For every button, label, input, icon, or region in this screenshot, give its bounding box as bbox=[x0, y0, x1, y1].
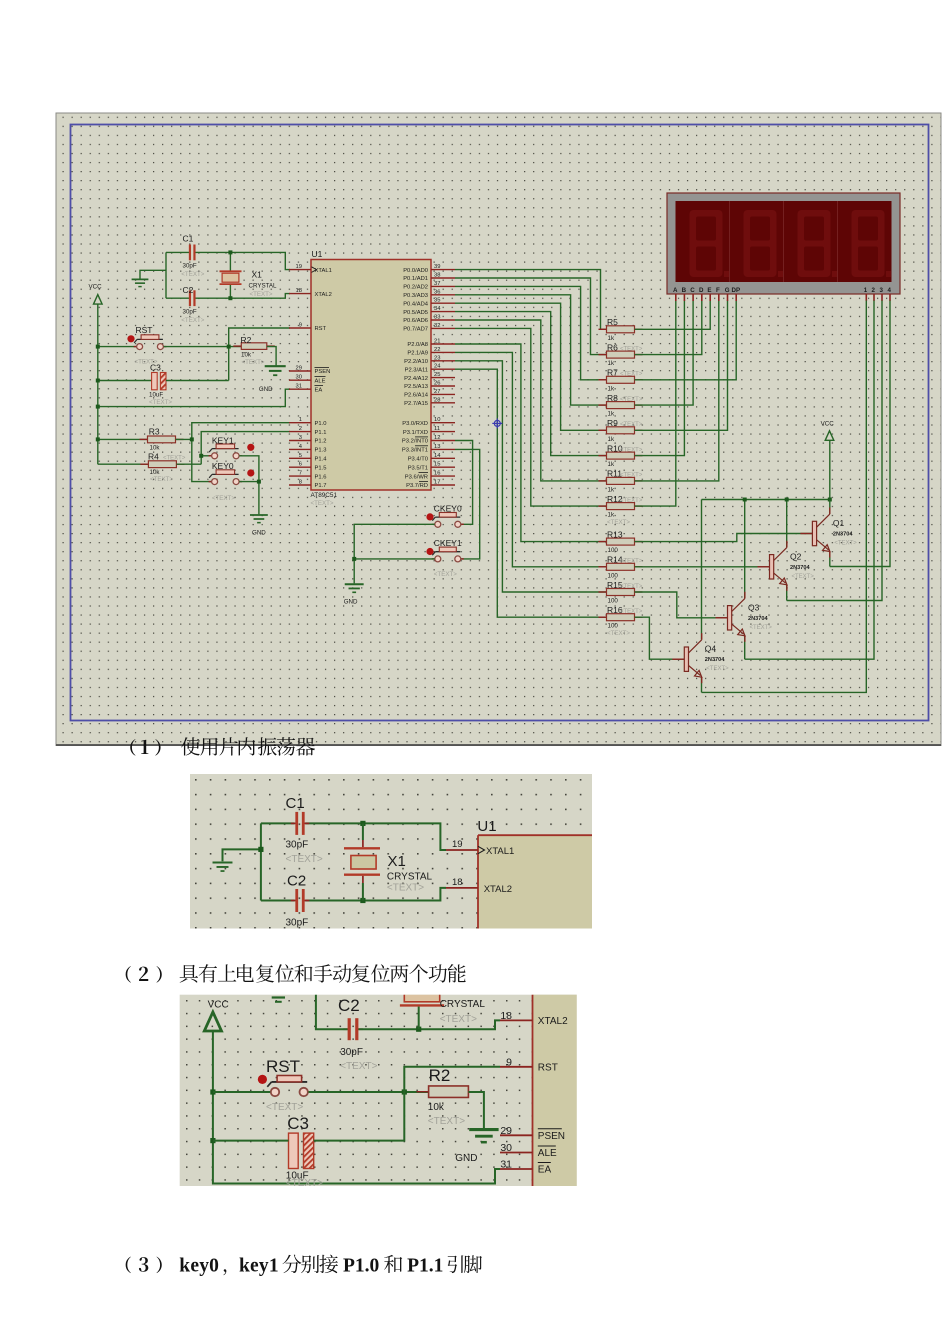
wire (R8 to display segment C) bbox=[635, 301, 694, 406]
wire (R14 to Q2 base) bbox=[635, 566, 770, 568]
svg-text:CRYSTAL: CRYSTAL bbox=[249, 283, 278, 290]
svg-text:1k: 1k bbox=[608, 436, 615, 443]
svg-text:P2.7/A15: P2.7/A15 bbox=[404, 401, 428, 407]
svg-text:<TEXT>: <TEXT> bbox=[620, 346, 643, 352]
resistor R6 bbox=[599, 342, 643, 367]
svg-text:P0.1/AD1: P0.1/AD1 bbox=[403, 276, 428, 282]
capacitor C2 (detail2, partial) bbox=[338, 996, 378, 1072]
svg-text:P2.2/A10: P2.2/A10 bbox=[404, 359, 428, 365]
capacitor C2 bbox=[181, 285, 204, 324]
resistor R2 bbox=[233, 335, 274, 366]
svg-text:2N3704: 2N3704 bbox=[748, 616, 768, 622]
svg-text:7: 7 bbox=[299, 471, 302, 477]
svg-text:RST: RST bbox=[538, 1062, 558, 1073]
node (C2/X1 junction) bbox=[228, 296, 232, 300]
svg-text:19: 19 bbox=[296, 264, 302, 270]
svg-text:<TEXT>: <TEXT> bbox=[434, 571, 457, 578]
wire bbox=[196, 252, 291, 269]
svg-text:Q1: Q1 bbox=[833, 518, 845, 528]
wire bbox=[166, 297, 189, 299]
capacitor C1 bbox=[181, 234, 204, 279]
wire (R9 to display segment G) bbox=[635, 301, 728, 431]
node (RST net junction) bbox=[227, 345, 231, 349]
crystal X1 (detail1) bbox=[344, 848, 433, 893]
wire bbox=[213, 1091, 270, 1093]
svg-text:10: 10 bbox=[434, 417, 440, 423]
resistor R15 bbox=[599, 580, 643, 605]
svg-text:P1.0: P1.0 bbox=[315, 421, 327, 427]
wire (R7 to display segment DP) bbox=[635, 301, 737, 380]
svg-text:<TEXT>: <TEXT> bbox=[428, 1116, 465, 1127]
svg-text:30pF: 30pF bbox=[286, 840, 309, 851]
svg-text:17: 17 bbox=[434, 480, 440, 486]
svg-text:P2.4/A12: P2.4/A12 bbox=[404, 376, 428, 382]
svg-text:P3.0/RXD: P3.0/RXD bbox=[402, 421, 428, 427]
capacitor C3 (detail2) bbox=[286, 1114, 323, 1189]
svg-text:P3.1/TXD: P3.1/TXD bbox=[403, 430, 428, 436]
crystal X1 bbox=[220, 270, 278, 299]
svg-text:26: 26 bbox=[434, 381, 440, 387]
resistor R7 bbox=[599, 368, 643, 393]
wire bbox=[354, 558, 434, 560]
svg-text:<TEXT>: <TEXT> bbox=[620, 559, 643, 565]
svg-text:2: 2 bbox=[872, 287, 876, 294]
svg-text:2: 2 bbox=[299, 426, 302, 432]
svg-text:R2: R2 bbox=[241, 335, 252, 345]
wire (Q3 emitter down) bbox=[744, 636, 746, 660]
node bbox=[785, 498, 789, 502]
wire (P3.3 to CKEY1) bbox=[455, 449, 480, 559]
wire (to Q3 collector) bbox=[744, 500, 746, 599]
svg-text:R7: R7 bbox=[607, 368, 618, 378]
wire bbox=[213, 1140, 289, 1142]
pushbutton CKEY1 bbox=[426, 538, 463, 578]
svg-text:key1: key1 bbox=[239, 1256, 279, 1277]
svg-text:19: 19 bbox=[452, 839, 463, 850]
node bbox=[416, 1027, 421, 1032]
svg-text:<TEXT>: <TEXT> bbox=[834, 541, 857, 547]
4-digit 7-segment display bbox=[667, 193, 900, 301]
svg-text:R9: R9 bbox=[607, 418, 618, 428]
node bbox=[360, 821, 365, 826]
svg-text:RST: RST bbox=[315, 326, 327, 332]
svg-text:13: 13 bbox=[434, 444, 440, 450]
sheet border frame bbox=[71, 125, 929, 721]
svg-text:30pF: 30pF bbox=[340, 1047, 363, 1058]
svg-text:R13: R13 bbox=[607, 529, 623, 539]
svg-text:R2: R2 bbox=[429, 1066, 451, 1085]
svg-text:F: F bbox=[716, 287, 720, 294]
wire bbox=[176, 463, 201, 465]
svg-text:3: 3 bbox=[299, 435, 302, 441]
power VCC (transistor rail) bbox=[821, 421, 835, 441]
node bbox=[199, 454, 203, 458]
wire bbox=[98, 380, 152, 382]
svg-text:P2.1/A9: P2.1/A9 bbox=[407, 351, 428, 357]
wire bbox=[229, 252, 231, 271]
wire bbox=[362, 823, 364, 840]
node bbox=[743, 498, 747, 502]
svg-text:P1.1: P1.1 bbox=[407, 1256, 443, 1277]
ground (detail2, partial top) bbox=[272, 998, 285, 1002]
svg-text:XTAL2: XTAL2 bbox=[315, 292, 332, 298]
resistor R4 bbox=[140, 451, 185, 483]
svg-text:10uF: 10uF bbox=[149, 391, 163, 398]
power VCC (left rail) bbox=[89, 284, 103, 305]
IC U1 (detail2, partial) bbox=[500, 995, 577, 1186]
svg-text:P3.5/T1: P3.5/T1 bbox=[408, 465, 428, 471]
svg-text:C3: C3 bbox=[287, 1114, 309, 1133]
svg-text:1k: 1k bbox=[608, 385, 615, 392]
svg-text:5: 5 bbox=[299, 453, 302, 459]
wire bbox=[239, 456, 259, 514]
wire bbox=[140, 270, 166, 278]
svg-text:21: 21 bbox=[434, 339, 440, 345]
svg-text:15: 15 bbox=[434, 462, 440, 468]
svg-text:<TEXT>: <TEXT> bbox=[311, 500, 334, 507]
svg-text:<TEXT>: <TEXT> bbox=[620, 422, 643, 428]
wire (to Q2 collector) bbox=[786, 500, 788, 548]
svg-text:R3: R3 bbox=[149, 426, 160, 436]
wire (VCC rail) bbox=[829, 440, 831, 499]
wire (Q2 emitter down) bbox=[786, 585, 788, 601]
svg-text:GND: GND bbox=[455, 1153, 477, 1164]
svg-text:<TEXT>: <TEXT> bbox=[387, 883, 424, 894]
svg-text:P1.0: P1.0 bbox=[343, 1256, 379, 1277]
wire bbox=[239, 481, 259, 483]
svg-text:P1.4: P1.4 bbox=[315, 457, 328, 463]
svg-text:<TEXT>: <TEXT> bbox=[250, 291, 273, 298]
resistor R10 bbox=[599, 443, 643, 468]
wire bbox=[164, 346, 242, 348]
wire (Q1 emitter down) bbox=[829, 551, 831, 566]
wire bbox=[166, 380, 229, 382]
svg-text:C1: C1 bbox=[286, 795, 305, 812]
svg-text:GND: GND bbox=[259, 386, 273, 393]
svg-text:ALE: ALE bbox=[315, 378, 326, 384]
wire bbox=[229, 284, 231, 298]
svg-text:P0.6/AD6: P0.6/AD6 bbox=[403, 318, 428, 324]
svg-text:<TEXT>: <TEXT> bbox=[620, 473, 643, 479]
svg-text:AT89C51: AT89C51 bbox=[311, 492, 338, 499]
svg-text:<TEXT>: <TEXT> bbox=[242, 359, 265, 366]
wire bbox=[261, 900, 295, 902]
svg-text:XTAL1: XTAL1 bbox=[486, 846, 514, 857]
wire (P0.0 to R5) bbox=[455, 270, 607, 330]
wire (P0.1 to R6) bbox=[455, 278, 607, 355]
wire bbox=[176, 438, 192, 440]
svg-text:1k: 1k bbox=[608, 486, 615, 493]
svg-text:XTAL2: XTAL2 bbox=[538, 1016, 568, 1027]
resistor R3 bbox=[140, 426, 184, 451]
wire bbox=[98, 463, 149, 465]
svg-text:P0.5/AD5: P0.5/AD5 bbox=[403, 310, 428, 316]
svg-text:23: 23 bbox=[434, 355, 440, 361]
svg-text:25: 25 bbox=[434, 372, 440, 378]
svg-text:<TEXT>: <TEXT> bbox=[620, 372, 643, 378]
ground (crystal circuit) bbox=[132, 278, 149, 280]
svg-text:<TEXT>: <TEXT> bbox=[620, 447, 643, 453]
capacitor C2 (detail1) bbox=[286, 873, 310, 929]
svg-text:EA: EA bbox=[315, 387, 323, 393]
svg-text:1k: 1k bbox=[608, 461, 615, 468]
wire (P0.6 to R11) bbox=[455, 320, 607, 481]
node bbox=[190, 437, 194, 441]
svg-text:18: 18 bbox=[500, 1010, 512, 1022]
wire (R11 to display segment F) bbox=[635, 301, 719, 481]
detail image 1: on-chip oscillator circuit bbox=[190, 774, 592, 929]
svg-text:P3.2/INT0: P3.2/INT0 bbox=[402, 439, 428, 445]
node bbox=[352, 557, 356, 561]
svg-text:GND: GND bbox=[252, 530, 266, 537]
svg-text:P3.7/RD: P3.7/RD bbox=[406, 483, 428, 489]
svg-text:31: 31 bbox=[500, 1159, 512, 1171]
svg-text:<TEXT>: <TEXT> bbox=[340, 1061, 377, 1072]
svg-text:C: C bbox=[690, 287, 695, 294]
svg-text:1k: 1k bbox=[608, 411, 615, 418]
sheet bottom edge line bbox=[56, 744, 941, 746]
wire bbox=[261, 822, 295, 824]
pushbutton KEY0 bbox=[209, 461, 255, 502]
wire bbox=[362, 883, 364, 901]
svg-text:24: 24 bbox=[434, 364, 441, 370]
svg-text:U1: U1 bbox=[312, 249, 323, 259]
svg-text:37: 37 bbox=[434, 281, 440, 287]
svg-text:P0.2/AD2: P0.2/AD2 bbox=[403, 285, 428, 291]
node bbox=[402, 1089, 407, 1094]
svg-text:<TEXT>: <TEXT> bbox=[607, 519, 630, 526]
svg-text:G: G bbox=[725, 287, 730, 294]
svg-text:2N3704: 2N3704 bbox=[705, 657, 725, 663]
wire bbox=[305, 823, 446, 850]
svg-text:B: B bbox=[682, 287, 687, 294]
power VCC (detail2) bbox=[204, 1000, 228, 1032]
wire (P3.2 to CKEY0) bbox=[455, 441, 473, 525]
svg-text:10k: 10k bbox=[428, 1102, 445, 1113]
svg-text:18: 18 bbox=[296, 288, 302, 294]
node bbox=[96, 379, 100, 383]
svg-text:R5: R5 bbox=[607, 317, 618, 327]
wire bbox=[260, 823, 262, 900]
svg-text:KEY1: KEY1 bbox=[212, 435, 234, 445]
svg-text:<TEXT>: <TEXT> bbox=[620, 609, 643, 615]
svg-text:39: 39 bbox=[434, 264, 440, 270]
wire (R6 to display segment D) bbox=[635, 301, 702, 355]
U1 right pins (stubs, numbers, names) bbox=[402, 264, 455, 489]
svg-text:C1: C1 bbox=[183, 234, 194, 244]
svg-text:<TEXT>: <TEXT> bbox=[286, 1178, 323, 1189]
wire bbox=[98, 346, 137, 348]
svg-text:8: 8 bbox=[299, 480, 302, 486]
wire bbox=[97, 304, 99, 464]
pushbutton KEY1 bbox=[209, 435, 255, 459]
ground (keys) bbox=[250, 515, 268, 537]
U1 left pins (stubs, numbers, names) bbox=[289, 264, 332, 489]
svg-text:CKEY0: CKEY0 bbox=[434, 503, 462, 513]
svg-text:XTAL2: XTAL2 bbox=[484, 884, 512, 895]
svg-text:P3.4/T0: P3.4/T0 bbox=[408, 457, 428, 463]
pushbutton CKEY0 bbox=[426, 503, 463, 527]
wire (P2.3 to R16) bbox=[455, 369, 607, 617]
svg-text:P2.6/A14: P2.6/A14 bbox=[404, 393, 429, 399]
resistor R13 bbox=[599, 529, 643, 554]
capacitor C1 (detail1) bbox=[286, 795, 323, 865]
svg-text:9: 9 bbox=[299, 323, 302, 329]
wire (P1.1 net) bbox=[201, 432, 290, 465]
svg-text:<TEXT>: <TEXT> bbox=[792, 574, 815, 580]
svg-text:2N3704: 2N3704 bbox=[833, 532, 853, 538]
svg-text:16: 16 bbox=[434, 471, 440, 477]
svg-text:R6: R6 bbox=[607, 342, 618, 352]
svg-text:29: 29 bbox=[500, 1125, 512, 1137]
svg-text:PSEN: PSEN bbox=[315, 369, 331, 375]
svg-text:P2.5/A13: P2.5/A13 bbox=[404, 384, 428, 390]
wire bbox=[362, 876, 364, 883]
svg-text:VCC: VCC bbox=[89, 284, 103, 291]
svg-text:<TEXT>: <TEXT> bbox=[620, 584, 643, 590]
svg-text:U1: U1 bbox=[477, 818, 496, 835]
resistor R11 bbox=[599, 469, 643, 494]
wire bbox=[316, 995, 348, 1029]
ground (R2) bbox=[259, 366, 286, 393]
svg-text:<TEXT>: <TEXT> bbox=[706, 666, 729, 672]
svg-text:100: 100 bbox=[608, 598, 619, 605]
svg-text:30pF: 30pF bbox=[286, 918, 309, 929]
svg-text:P1.7: P1.7 bbox=[315, 483, 327, 489]
wire (P0.7 to R12) bbox=[455, 328, 607, 506]
svg-text:34: 34 bbox=[434, 306, 441, 312]
node bbox=[210, 1138, 215, 1143]
IC U1 AT89C51 body bbox=[311, 249, 432, 507]
wire bbox=[468, 1092, 484, 1128]
svg-text:100: 100 bbox=[608, 572, 619, 579]
resistor R2 (detail2) bbox=[417, 1066, 481, 1127]
svg-text:P1.2: P1.2 bbox=[315, 439, 327, 445]
svg-text:<TEXT>: <TEXT> bbox=[212, 495, 235, 502]
svg-text:Q2: Q2 bbox=[790, 551, 802, 561]
svg-text:33: 33 bbox=[434, 315, 440, 321]
wire (R15 to Q3 base) bbox=[635, 592, 728, 618]
wire bbox=[196, 294, 291, 299]
svg-text:38: 38 bbox=[434, 273, 440, 279]
wire (P0.3 to R8) bbox=[455, 295, 607, 405]
wire (P0.4 to R9) bbox=[455, 303, 607, 430]
wire (P2.0 to R13) bbox=[455, 344, 607, 542]
svg-text:12: 12 bbox=[434, 435, 440, 441]
svg-text:30pF: 30pF bbox=[183, 263, 197, 270]
svg-text:3: 3 bbox=[880, 287, 884, 294]
svg-text:<TEXT>: <TEXT> bbox=[149, 399, 172, 406]
wire (to RST pin) bbox=[404, 1067, 500, 1092]
wire bbox=[165, 252, 167, 298]
svg-text:32: 32 bbox=[434, 323, 440, 329]
transistor Q2 2N3704 bbox=[758, 541, 815, 591]
svg-text:30: 30 bbox=[500, 1142, 512, 1154]
wire bbox=[362, 840, 364, 847]
capacitor C3 (electrolytic) bbox=[149, 362, 172, 406]
wire (display pin 3 to Q2 emitter) bbox=[787, 301, 882, 601]
wire (R10 to display segment B) bbox=[635, 301, 685, 456]
svg-text:9: 9 bbox=[506, 1056, 512, 1068]
node bbox=[258, 847, 263, 852]
wire bbox=[267, 347, 276, 366]
transistor Q3 2N3704 bbox=[716, 592, 773, 642]
caption (1) 使用片内振荡器 bbox=[130, 737, 315, 756]
svg-text:VCC: VCC bbox=[821, 421, 835, 428]
wire (R12 to display segment A) bbox=[635, 301, 676, 507]
wire bbox=[309, 1091, 429, 1093]
svg-text:C2: C2 bbox=[338, 996, 360, 1015]
svg-text:<TEXT>: <TEXT> bbox=[607, 630, 630, 637]
svg-text:<TEXT>: <TEXT> bbox=[181, 317, 204, 324]
svg-text:11: 11 bbox=[434, 426, 440, 432]
wire (P2.1 to R14) bbox=[455, 352, 607, 566]
wire (R5 to display segment E) bbox=[635, 301, 711, 330]
svg-text:4: 4 bbox=[888, 287, 892, 294]
svg-text:<TEXT>: <TEXT> bbox=[620, 397, 643, 403]
wire bbox=[354, 524, 434, 583]
svg-text:P3.6/WR: P3.6/WR bbox=[405, 474, 428, 480]
svg-text:1: 1 bbox=[299, 417, 302, 423]
ground (detail2 R2) bbox=[469, 1128, 498, 1131]
svg-text:35: 35 bbox=[434, 298, 440, 304]
svg-text:R4: R4 bbox=[148, 451, 159, 461]
node (C1/X1 junction) bbox=[228, 250, 232, 254]
origin marker (blue crosshair) bbox=[492, 418, 502, 428]
svg-text:P3.3/INT1: P3.3/INT1 bbox=[402, 448, 428, 454]
svg-text:C2: C2 bbox=[287, 873, 306, 890]
resistor R12 bbox=[599, 494, 643, 526]
wire (R13 to Q1 base) bbox=[635, 534, 813, 542]
wire bbox=[98, 438, 148, 440]
svg-text:XTAL1: XTAL1 bbox=[315, 268, 332, 274]
IC U1 (detail1, partial) bbox=[446, 818, 592, 929]
svg-text:CRYSTAL: CRYSTAL bbox=[440, 999, 486, 1010]
svg-text:C2: C2 bbox=[183, 285, 194, 295]
wire bbox=[418, 1007, 420, 1030]
svg-text:1k: 1k bbox=[608, 360, 615, 367]
wire bbox=[201, 455, 211, 457]
svg-text:key0: key0 bbox=[179, 1256, 219, 1277]
svg-text:Q3: Q3 bbox=[748, 602, 760, 612]
svg-text:VCC: VCC bbox=[208, 1000, 229, 1011]
wire (P2.2 to R15) bbox=[455, 361, 607, 592]
svg-text:1k: 1k bbox=[608, 512, 615, 519]
svg-text:E: E bbox=[707, 287, 711, 294]
svg-text:22: 22 bbox=[434, 347, 440, 353]
svg-text:PSEN: PSEN bbox=[538, 1131, 565, 1142]
svg-text:P2.3/A11: P2.3/A11 bbox=[405, 367, 428, 373]
transistor Q1 2N3704 bbox=[800, 508, 857, 558]
svg-text:27: 27 bbox=[434, 389, 440, 395]
svg-text:GND: GND bbox=[344, 599, 358, 606]
resistor R5 bbox=[599, 317, 643, 342]
wire (P0.5 to R10) bbox=[455, 312, 607, 456]
ground (detail1) bbox=[213, 861, 233, 863]
wire bbox=[166, 251, 189, 253]
node bbox=[210, 1089, 215, 1094]
wire (P1.0 net) bbox=[192, 423, 290, 482]
svg-text:P1.5: P1.5 bbox=[315, 465, 327, 471]
svg-text:RST: RST bbox=[266, 1057, 300, 1076]
pushbutton RST (detail2) bbox=[258, 1057, 312, 1113]
wire (to Q1 collector) bbox=[829, 500, 831, 515]
svg-text:30: 30 bbox=[296, 375, 302, 381]
svg-text:14: 14 bbox=[434, 453, 441, 459]
resistor R8 bbox=[599, 393, 643, 418]
svg-text:A: A bbox=[673, 287, 678, 294]
node bbox=[257, 480, 261, 484]
